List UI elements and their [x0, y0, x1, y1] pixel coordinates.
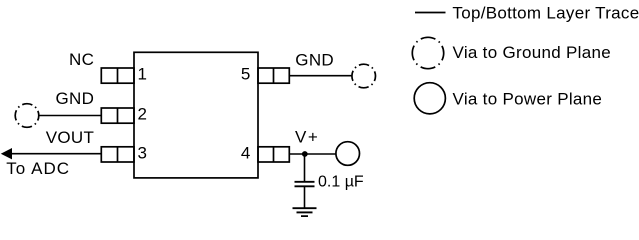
svg-text:Top/Bottom Layer Trace: Top/Bottom Layer Trace: [452, 3, 639, 22]
svg-text:NC: NC: [69, 50, 94, 69]
pin 4 pad: [258, 147, 289, 162]
legend via to power plane symbol (solid circle): [414, 83, 445, 114]
junction node at pin 4: [302, 151, 308, 157]
svg-text:To ADC: To ADC: [6, 159, 70, 178]
wire capacitor to ground: [304, 186, 306, 208]
svg-text:2: 2: [138, 104, 148, 123]
legend trace sample line: [415, 12, 446, 14]
wire pin 5 to ground via: [289, 75, 352, 77]
pin 3 pad: [101, 147, 134, 162]
svg-text:0.1 µF: 0.1 µF: [318, 174, 364, 191]
arrowhead to ADC: [1, 148, 12, 159]
svg-text:3: 3: [138, 144, 148, 163]
svg-text:GND: GND: [56, 89, 95, 108]
svg-text:V+: V+: [295, 128, 319, 147]
wire junction to capacitor: [304, 154, 306, 181]
svg-text:Via to Ground Plane: Via to Ground Plane: [453, 43, 612, 62]
pin 5 pad: [258, 68, 289, 83]
svg-text:4: 4: [241, 144, 251, 163]
pin 2 pad: [101, 108, 134, 123]
pin 1 pad: [101, 68, 134, 83]
via to ground plane (left, dashed): [15, 104, 39, 128]
wire pin 2 to ground via: [39, 115, 102, 117]
svg-text:1: 1: [138, 64, 148, 83]
ground symbol: [293, 208, 317, 216]
op-amp U1 body: [134, 52, 258, 178]
via to power plane (solid circle): [336, 142, 360, 166]
svg-text:GND: GND: [295, 50, 334, 69]
svg-text:VOUT: VOUT: [46, 128, 94, 147]
wire VOUT to ADC: [10, 153, 101, 155]
capacitor C1 0.1 uF: [295, 182, 315, 187]
legend via to ground plane symbol (dashed circle): [412, 37, 443, 68]
svg-text:Via to Power Plane: Via to Power Plane: [453, 89, 603, 108]
wire pin 4 to power via: [289, 153, 336, 155]
via to ground plane (right, dashed): [352, 64, 376, 88]
svg-text:5: 5: [241, 65, 251, 84]
